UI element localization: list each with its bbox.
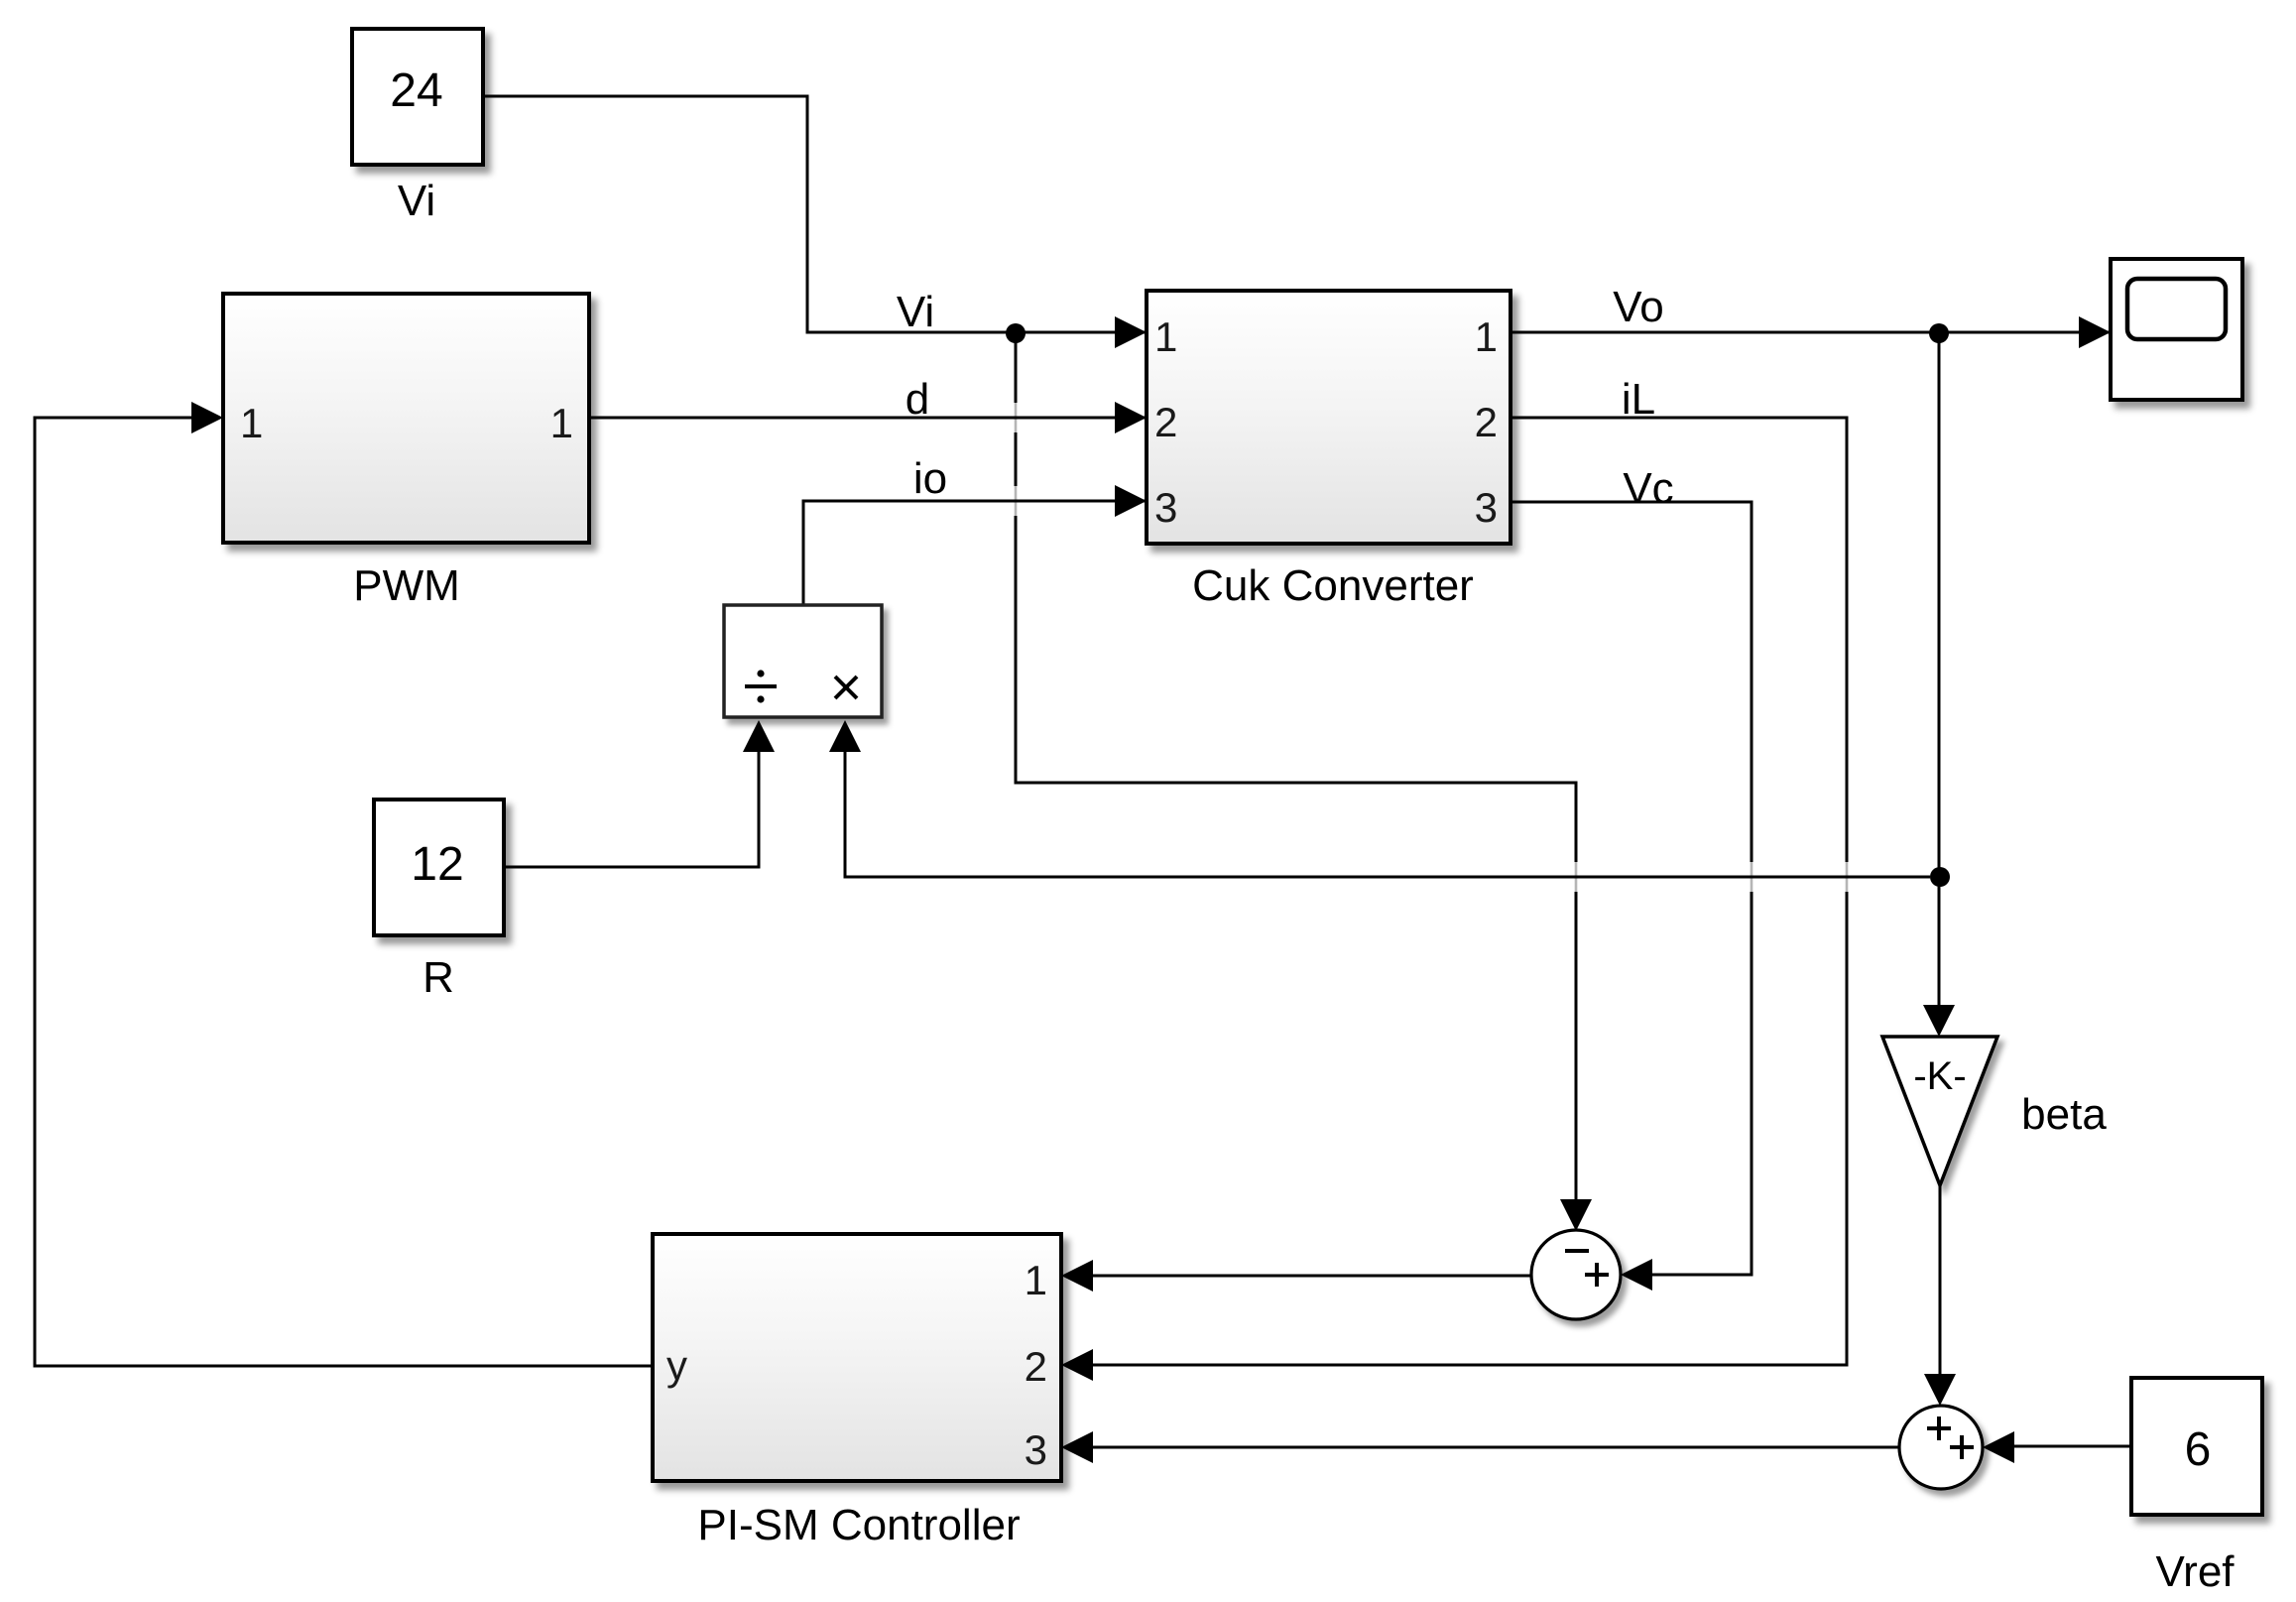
constant block Vref (value 6)	[2131, 1378, 2262, 1515]
arrowhead into controller input 2	[1061, 1349, 1093, 1381]
svg-text:3: 3	[1025, 1426, 1047, 1473]
wire Vc from Cuk port 3 to sum1 right input	[1751, 861, 1753, 893]
wire from sum2 output to controller input 3	[1093, 1446, 1899, 1449]
wire from sum1 output to controller input 1	[1093, 1275, 1531, 1278]
constant block R (value 12)	[374, 800, 504, 935]
arrowhead into Cuk port 1	[1115, 316, 1147, 348]
scope block	[2111, 259, 2242, 400]
subsystem Cuk Converter	[1147, 291, 1511, 544]
svg-text:Cuk Converter: Cuk Converter	[1192, 561, 1474, 610]
svg-text:beta: beta	[2021, 1090, 2107, 1139]
feedback wire from controller y to PWM input	[35, 418, 653, 1366]
svg-text:1: 1	[240, 400, 263, 446]
arrowhead into product right (multiply) input	[829, 720, 861, 752]
svg-text:Vo: Vo	[1613, 283, 1663, 331]
product block (divide)	[724, 605, 882, 717]
divide sign	[745, 670, 777, 702]
svg-text:y: y	[666, 1342, 687, 1389]
constant block Vi (value 24)	[352, 29, 483, 165]
svg-text:2: 2	[1154, 399, 1177, 445]
svg-text:R: R	[423, 953, 454, 1002]
svg-text:6: 6	[2185, 1423, 2212, 1476]
svg-text:d: d	[906, 375, 929, 424]
svg-text:1: 1	[1475, 313, 1498, 360]
svg-text:-K-: -K-	[1913, 1054, 1966, 1098]
svg-text:Vc: Vc	[1623, 464, 1673, 513]
node junction dot on Vo branch	[1930, 867, 1950, 887]
subsystem PI-SM Controller	[653, 1234, 1061, 1481]
svg-text:1: 1	[1154, 313, 1177, 360]
svg-text:1: 1	[1025, 1257, 1047, 1303]
arrowhead into sum1 right	[1621, 1259, 1652, 1291]
wire from Vi constant to node Vi	[483, 96, 1147, 332]
arrowhead into sum2 top	[1924, 1374, 1956, 1406]
arrowhead into Scope	[2079, 316, 2111, 348]
arrowhead into controller input 3	[1061, 1431, 1093, 1463]
svg-text:12: 12	[411, 838, 463, 891]
wire from beta to sum2	[1939, 1185, 1942, 1378]
node Vi junction dot	[1006, 323, 1026, 343]
gain beta (-K-)	[1882, 1037, 1997, 1185]
svg-text:3: 3	[1475, 484, 1498, 531]
sum block sum1 (minus plus)	[1531, 1230, 1621, 1319]
arrowhead into beta gain	[1923, 1005, 1955, 1037]
plus sign of sum1	[1585, 1263, 1609, 1287]
plus sign top of sum2	[1927, 1417, 1951, 1440]
arrowhead into PWM input	[191, 402, 223, 433]
svg-text:PI-SM Controller: PI-SM Controller	[697, 1501, 1020, 1549]
arrowhead into Cuk port 2	[1115, 402, 1147, 433]
wire from junction to product multiply input	[845, 746, 1930, 877]
svg-text:iL: iL	[1622, 375, 1655, 424]
svg-text:Vi: Vi	[897, 288, 934, 336]
arrowhead into sum2 right	[1983, 1431, 2014, 1463]
arrowhead into sum1 top	[1560, 1199, 1592, 1231]
svg-text:PWM: PWM	[353, 561, 460, 610]
svg-text:io: io	[913, 454, 947, 503]
plus sign right of sum2	[1950, 1435, 1974, 1459]
arrowhead into controller input 1	[1061, 1260, 1093, 1292]
wire Vi branch down to sum junction	[1016, 402, 1576, 893]
svg-text:24: 24	[390, 64, 442, 117]
wire from Vref to sum2 right input	[2014, 1445, 2131, 1448]
wire Vo from Cuk port 1 to Scope	[1511, 331, 2111, 334]
sum block sum2 (plus plus)	[1899, 1406, 1983, 1489]
wire io from product to Cuk port 3	[803, 501, 1147, 605]
wire d from PWM to Cuk port 2	[589, 417, 1147, 420]
arrowhead into Cuk port 3	[1115, 485, 1147, 517]
svg-text:2: 2	[1475, 399, 1498, 445]
svg-text:Vref: Vref	[2155, 1547, 2235, 1596]
subsystem PWM	[223, 294, 589, 543]
arrowhead into product left (divide) input	[743, 720, 775, 752]
wire from Vo node down through junction to beta	[1938, 333, 1941, 1009]
wire iL from Cuk port 2 to controller input 2	[1846, 861, 1849, 893]
multiply sign	[835, 677, 857, 698]
wire from R to product divide input	[504, 746, 759, 867]
minus sign of sum1	[1565, 1249, 1589, 1253]
svg-text:1: 1	[550, 400, 573, 446]
svg-text:Vi: Vi	[398, 177, 435, 225]
svg-text:3: 3	[1154, 484, 1177, 531]
svg-text:2: 2	[1025, 1343, 1047, 1390]
node Vo junction dot	[1929, 323, 1949, 343]
